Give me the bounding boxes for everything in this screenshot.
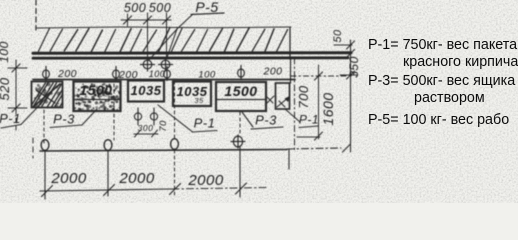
- svg-text:Р-3: Р-3: [53, 112, 75, 127]
- svg-text:700: 700: [296, 85, 311, 108]
- svg-text:1500: 1500: [224, 83, 257, 99]
- axis circle A: [41, 140, 49, 151]
- svg-text:2000: 2000: [50, 170, 87, 187]
- svg-text:520: 520: [0, 77, 12, 100]
- svg-text:1035: 1035: [131, 83, 162, 98]
- deck line: [33, 79, 295, 81]
- wall hatch top line: [37, 27, 291, 28]
- right wall axis dash-dot: [294, 58, 296, 151]
- svg-text:Р-3= 500кг- вес ящика: Р-3= 500кг- вес ящика: [368, 73, 515, 89]
- right dim chain: [350, 40, 352, 152]
- svg-text:500: 500: [149, 1, 171, 15]
- svg-text:35: 35: [194, 96, 204, 105]
- svg-text:Р-1: Р-1: [0, 111, 21, 126]
- dim 700 line: [318, 65, 320, 139]
- P-5 load marker 1: [141, 58, 155, 71]
- arrow into narrow box: [277, 97, 289, 107]
- load box 1035 right: [173, 82, 211, 107]
- axis circle B: [104, 140, 112, 151]
- load box 1035 left: [128, 81, 164, 102]
- svg-text:200: 200: [262, 66, 282, 78]
- load box P-3 1500 right: [216, 82, 266, 111]
- droppers to bottom dim: [44, 151, 46, 200]
- svg-text:100: 100: [149, 69, 166, 79]
- svg-text:50: 50: [332, 29, 344, 43]
- svg-text:100: 100: [198, 70, 216, 81]
- deck dashed continuation: [291, 75, 348, 77]
- svg-text:Р-1: Р-1: [299, 113, 319, 127]
- load box P-1 narrow: [276, 83, 290, 109]
- svg-text:200: 200: [57, 68, 77, 80]
- P-5 load marker 2: [159, 58, 173, 71]
- load box P-3 1500 left: [74, 82, 121, 112]
- slab double line: [33, 51, 351, 54]
- svg-text:1500: 1500: [79, 82, 112, 98]
- svg-text:2000: 2000: [187, 172, 224, 189]
- svg-text:Р-3: Р-3: [255, 113, 277, 128]
- svg-text:1600: 1600: [320, 92, 336, 125]
- svg-text:2000: 2000: [118, 170, 155, 187]
- svg-text:300: 300: [138, 123, 154, 133]
- svg-text:200: 200: [118, 69, 138, 81]
- deck load marker x241: [238, 66, 245, 80]
- dotted droppers: [43, 110, 45, 143]
- axis circle C: [171, 139, 179, 150]
- left axis dash bottom: [32, 138, 34, 158]
- bottom dimension line: [40, 189, 172, 191]
- svg-text:раствором: раствором: [414, 90, 485, 106]
- svg-text:Р-1: Р-1: [194, 116, 216, 131]
- svg-text:70: 70: [158, 120, 169, 132]
- deck load marker x167: [164, 67, 171, 81]
- svg-text:Р-1= 750кг- вес пакета: Р-1= 750кг- вес пакета: [368, 37, 517, 53]
- stick marker under 1035 right: [150, 108, 157, 125]
- svg-text:Р-5= 100 кг- вес рабо: Р-5= 100 кг- вес рабо: [368, 112, 509, 128]
- dim 300: [134, 133, 158, 135]
- legend text: [368, 37, 518, 128]
- axis circle D crossed: [231, 135, 245, 148]
- svg-text:500: 500: [124, 1, 146, 15]
- left dim column: [15, 60, 17, 110]
- stick marker under 1035 left: [134, 108, 141, 125]
- deck load marker x116: [113, 67, 120, 81]
- wall right edge: [289, 28, 291, 59]
- load box P-1 hatched: [32, 82, 63, 108]
- pen mark x between boxes: [267, 96, 274, 103]
- leader P-5: [149, 14, 193, 60]
- svg-text:красного кирпича: красного кирпича: [403, 54, 518, 70]
- svg-text:350: 350: [347, 56, 361, 78]
- ticks down to P-5 markers: [147, 20, 149, 59]
- wall hatch strokes: [38, 28, 49, 51]
- wall axis dashed (top left): [35, 0, 37, 30]
- axis line: [40, 150, 287, 152]
- svg-text:Р-5: Р-5: [195, 0, 218, 15]
- top dimension line 500+500: [121, 19, 171, 21]
- svg-text:100: 100: [0, 41, 11, 63]
- deck load marker x46: [43, 67, 50, 81]
